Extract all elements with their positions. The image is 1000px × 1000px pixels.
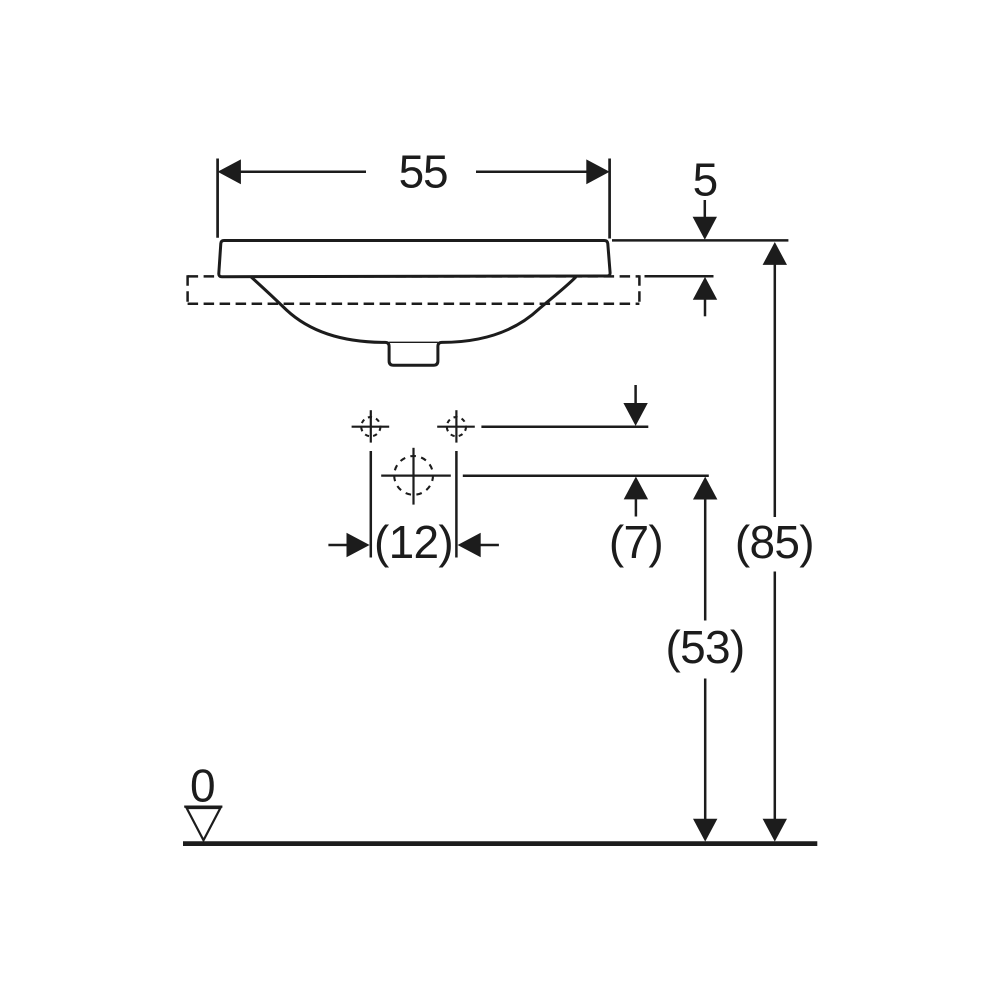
drain opening thin line (389, 341, 438, 343)
svg-text:0: 0 (190, 760, 216, 812)
dim 85: lower stem (774, 572, 777, 820)
datum baseline tick (184, 805, 222, 807)
svg-text:5: 5 (693, 154, 719, 206)
dim 5: upper stem (704, 200, 707, 218)
dim 12: right extension line (455, 451, 458, 558)
dim 55: dimension line left segment (241, 171, 367, 174)
dim 85: upper stem (774, 264, 777, 517)
dim 53: upper stem (704, 499, 707, 621)
dim 12: left tail line (328, 544, 348, 547)
dim 53: up arrowhead (693, 477, 717, 500)
floor line (183, 841, 817, 846)
dim 55: left extension line (216, 159, 219, 238)
svg-text:(12): (12) (374, 516, 453, 568)
dim 53: lower stem (704, 679, 707, 820)
right tap hole: dashed circle (447, 417, 466, 436)
dim 7: lower stem (635, 499, 638, 517)
svg-text:(85): (85) (735, 516, 814, 568)
dim 55: dimension line right segment (476, 171, 587, 174)
svg-text:55: 55 (399, 145, 448, 197)
washbasin rim (219, 241, 610, 277)
dim 5: down arrowhead (693, 217, 717, 240)
left tap hole: horizontal centerline (352, 426, 390, 428)
dim 55: right arrowhead (586, 159, 609, 184)
dim 85: up arrowhead (763, 242, 787, 265)
dim 85: down arrowhead (763, 819, 787, 842)
drain hole: horizontal centerline (381, 475, 451, 477)
drain hole: vertical centerline (412, 448, 414, 505)
left tap hole: vertical centerline (370, 410, 372, 442)
dim 53: down arrowhead (693, 819, 717, 842)
dim 55: right extension line (608, 159, 611, 239)
top surface reference line (612, 239, 788, 242)
dim 7: up arrowhead (624, 477, 648, 500)
dim 7: upper stem (634, 385, 637, 404)
datum triangle (187, 808, 221, 840)
drain height reference line (463, 474, 709, 477)
svg-text:(53): (53) (665, 621, 744, 673)
dim 12: left arrowhead (347, 533, 370, 557)
dim 5: up arrowhead (693, 277, 717, 300)
dim 12: right tail line (479, 544, 499, 547)
rim bottom reference line (645, 275, 714, 278)
svg-text:(7): (7) (609, 516, 663, 568)
dim 55: left arrowhead (218, 159, 241, 184)
dim 5: lower stem (704, 299, 707, 316)
right tap hole: vertical centerline (455, 410, 457, 442)
dim 12: left extension line (370, 451, 373, 558)
dim 12: right arrowhead (458, 533, 481, 557)
right tap hole: horizontal centerline (437, 426, 475, 428)
tap hole height reference line (481, 425, 648, 428)
countertop cutout dashed rectangle: top and bottom edges (188, 276, 640, 303)
dim 7: down arrowhead (623, 403, 647, 426)
drain hole: dashed circle (394, 456, 433, 495)
washbasin bowl (251, 276, 577, 365)
countertop cutout dashed rectangle: left and right edges (188, 275, 640, 305)
left tap hole: dashed circle (361, 417, 380, 436)
